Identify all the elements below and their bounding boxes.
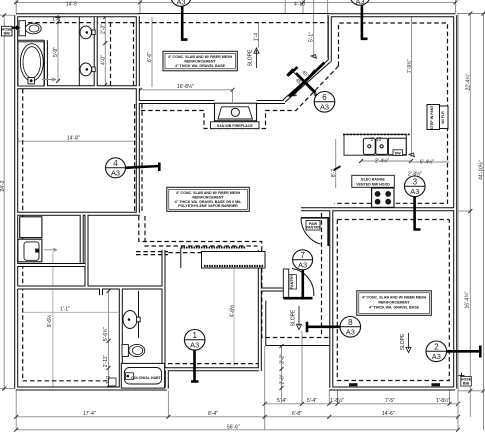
pantry door upper leaf box — [301, 217, 329, 246]
dashed roof line right of porch — [321, 213, 323, 338]
garage slope arrow — [400, 333, 411, 353]
hall lower door leaf box — [283, 269, 314, 299]
closet hall wall dashed — [136, 251, 168, 253]
vanity counter line — [78, 17, 80, 86]
diagonal wall — [284, 61, 330, 102]
note box garage slab — [357, 291, 432, 316]
garage inner dashed rectangle — [337, 220, 449, 381]
svg-text:4" THICK WA. GRAVEL BASE: 4" THICK WA. GRAVEL BASE — [175, 64, 226, 68]
svg-text:SLOPE: SLOPE — [248, 49, 254, 66]
leader callout 6 (diagonal) — [289, 63, 324, 97]
svg-text:BIB: BIB — [4, 31, 11, 35]
svg-text:2'-4½": 2'-4½" — [375, 158, 389, 165]
utility cabinet box — [20, 217, 42, 238]
bedroom1 centerline + dim — [229, 255, 236, 366]
svg-text:2'-11": 2'-11" — [103, 355, 109, 368]
svg-text:7: 7 — [300, 251, 305, 260]
utility wall east — [80, 214, 84, 263]
left wall inner dashed — [22, 89, 24, 381]
svg-text:PANTRY: PANTRY — [306, 226, 321, 230]
fireplace wall west segment — [138, 100, 215, 104]
svg-text:6'-8": 6'-8" — [292, 411, 302, 417]
master closet dashed rod lines — [133, 23, 135, 86]
svg-text:PANTRY: PANTRY — [290, 274, 294, 289]
utility door arrow gray — [44, 248, 57, 251]
svg-text:ELEC RANGE: ELEC RANGE — [361, 177, 385, 181]
callout 2/A3 — [426, 341, 447, 362]
svg-text:6: 6 — [322, 93, 327, 102]
kitchen dim 6'-4.5 — [411, 159, 449, 166]
bottom dimension row B — [14, 391, 460, 431]
dashed flanking bedroom wall right — [141, 104, 143, 213]
callout 3/A3 — [405, 176, 426, 197]
bottom dimension row C overall — [14, 425, 460, 432]
svg-text:14'-8": 14'-8" — [67, 136, 80, 142]
pantry / fridge boxes — [427, 104, 448, 129]
svg-text:4'-0": 4'-0" — [101, 55, 107, 65]
svg-text:5'-1": 5'-1" — [309, 32, 315, 42]
callout 7 leader — [284, 270, 313, 298]
svg-text:2'-0": 2'-0" — [280, 374, 286, 384]
svg-text:2'-3": 2'-3" — [101, 24, 107, 34]
svg-text:A3: A3 — [298, 261, 307, 270]
bath2 top wall — [16, 286, 164, 290]
leader callout 4 — [126, 163, 160, 172]
svg-text:1'-4: 1'-4 — [254, 33, 260, 41]
svg-text:SLOPE: SLOPE — [400, 333, 406, 350]
callout 1/A3 — [184, 330, 205, 351]
svg-text:SAN WB FIREPLACE: SAN WB FIREPLACE — [217, 124, 254, 128]
callout 4/A3 — [106, 158, 126, 178]
svg-text:A3: A3 — [346, 328, 355, 337]
fireplace 45 degree X marks — [287, 69, 317, 96]
leader callout 3 — [414, 197, 421, 230]
mid wall below bedroom — [16, 212, 140, 216]
small box left of bath2 — [109, 378, 117, 386]
patio dim 16'-8.5 — [138, 83, 235, 102]
svg-text:1: 1 — [192, 331, 197, 340]
great room dashed along diagonal wall — [141, 66, 339, 129]
svg-text:1'-1": 1'-1" — [60, 307, 70, 313]
patio dim 1'-4 vertical — [254, 23, 260, 48]
range — [372, 188, 394, 207]
vanity sink 1 — [80, 26, 95, 39]
svg-text:7'-5": 7'-5" — [385, 398, 395, 404]
exterior wall right — [453, 15, 457, 388]
callout 7/A3 — [293, 250, 313, 270]
svg-text:DW: DW — [395, 152, 402, 156]
leader callout 2 — [447, 346, 481, 358]
svg-text:4" THICK WA. GRAVEL BASE ON 6: 4" THICK WA. GRAVEL BASE ON 6 MIL — [175, 200, 242, 204]
fireplace wall east segment — [257, 100, 286, 104]
leader callout 1 — [191, 351, 199, 382]
exterior wall left — [14, 15, 18, 388]
patio top slab edge — [138, 13, 330, 15]
garage left wall — [329, 209, 333, 388]
bath2 dims column — [103, 289, 112, 388]
kitchen bottom wall — [301, 207, 455, 211]
tub niche wall — [44, 40, 48, 87]
callout 8/A3 — [340, 317, 361, 338]
svg-text:5'-4": 5'-4" — [307, 398, 317, 404]
bath2 left wall — [119, 288, 123, 389]
svg-text:4'-10: 4'-10 — [294, 1, 305, 7]
bath door swing arrow gray — [42, 78, 56, 81]
vanity dims 2'-3 / 4'-0 — [101, 15, 108, 87]
vanity wall — [94, 17, 98, 87]
svg-text:5'-4": 5'-4" — [277, 398, 287, 404]
svg-text:W/ FLR: W/ FLR — [441, 111, 445, 124]
bath2 right / bedroom1 west wall — [162, 250, 166, 389]
svg-text:5'-9": 5'-9" — [53, 47, 59, 57]
svg-text:4'-6½: 4'-6½ — [229, 304, 236, 317]
leader callout 8 — [307, 322, 340, 333]
porch slab solid edge — [266, 301, 330, 346]
fireplace — [211, 103, 260, 128]
bedroom closet nested rects — [168, 248, 265, 269]
svg-text:COLONIAL HABT: COLONIAL HABT — [131, 376, 161, 380]
svg-text:8'-4": 8'-4" — [208, 411, 218, 417]
bedroom dim 14'-8 — [15, 136, 141, 144]
svg-text:REINFORCEMENT: REINFORCEMENT — [378, 300, 410, 304]
top dimension line — [14, 0, 458, 58]
bedroom1 dashed line above bottom wall — [168, 363, 258, 365]
svg-text:A3: A3 — [355, 0, 364, 6]
stoop slope arrow — [291, 306, 302, 330]
svg-text:17'-4": 17'-4" — [83, 411, 96, 417]
svg-text:16'-8½": 16'-8½" — [177, 83, 194, 90]
svg-text:A3: A3 — [190, 341, 199, 350]
utility wall south — [16, 263, 85, 267]
left dimension line — [0, 13, 15, 390]
notch wall bed1 east jog — [165, 369, 169, 388]
exterior wall bottom-left — [16, 387, 167, 391]
dashed flanking bedroom wall left — [134, 104, 136, 213]
svg-text:1'-8½": 1'-8½" — [330, 397, 344, 404]
patio slope arrow — [248, 48, 260, 68]
svg-text:14'-5: 14'-5 — [66, 1, 77, 7]
svg-text:POLYETHYLENE VAPOR BARRIER: POLYETHYLENE VAPOR BARRIER — [178, 204, 238, 208]
note box patio slab — [163, 51, 237, 71]
bedroom1 bottom wall — [165, 367, 260, 371]
hall roof dashed L inner — [145, 216, 258, 246]
svg-text:4" THICK WA. GRAVEL BASE: 4" THICK WA. GRAVEL BASE — [369, 305, 420, 309]
bath2 toilet — [122, 344, 145, 356]
bottom-left room centerlines + dims — [23, 252, 118, 388]
svg-text:44'-10½": 44'-10½" — [478, 160, 485, 180]
svg-text:5'-6¾": 5'-6¾" — [103, 327, 109, 341]
leader callout 9 — [361, 5, 368, 39]
exterior wall top — [16, 13, 140, 17]
svg-text:8: 8 — [348, 318, 353, 327]
bath2 sink — [123, 291, 140, 338]
svg-text:A3: A3 — [176, 0, 185, 7]
hall roof dashed L outer — [139, 216, 329, 338]
svg-text:REINFORCEMENT: REINFORCEMENT — [184, 60, 216, 64]
bottom dimension row A — [263, 331, 460, 430]
stoop wall stub — [260, 288, 283, 292]
svg-text:BIB: BIB — [463, 382, 470, 386]
svg-text:24'-2: 24'-2 — [0, 180, 6, 191]
kitchen dim 2'-4.5 — [359, 158, 413, 165]
bottom-left room dashed slab edge — [23, 380, 115, 382]
svg-text:6'-6": 6'-6" — [147, 52, 153, 62]
callout 5/A3 (cut at top) — [171, 0, 192, 7]
kitchen dim 8'-7 — [331, 139, 337, 188]
callout 9/A3 (cut at top) — [350, 0, 370, 6]
svg-text:14'-6": 14'-6" — [382, 411, 395, 417]
tub niche top — [18, 39, 44, 41]
svg-text:STEP IN PANT: STEP IN PANT — [430, 104, 434, 129]
svg-text:A3: A3 — [432, 352, 441, 361]
elec range note box — [352, 175, 395, 187]
great room inner dashed rectangle — [334, 23, 448, 203]
bedroom1 right wall — [258, 250, 262, 371]
svg-text:56'-6": 56'-6" — [227, 425, 240, 431]
svg-text:A3: A3 — [320, 103, 329, 112]
bath1 bottom wall — [16, 85, 140, 89]
toilet dim tick top — [56, 15, 61, 20]
svg-text:7'-9¾": 7'-9¾" — [407, 59, 413, 73]
svg-text:4: 4 — [113, 159, 118, 168]
svg-text:2: 2 — [434, 342, 439, 351]
closet / bedroom right wall — [136, 15, 140, 214]
exterior wall garage bottom — [329, 387, 455, 391]
wall inner white cores — [16, 15, 455, 388]
svg-text:REINFORCEMENT: REINFORCEMENT — [192, 195, 224, 199]
svg-text:22'-4¾": 22'-4¾" — [466, 73, 472, 90]
patio dim 5'-1 vertical — [309, 23, 317, 58]
roof overhang dashed line across top — [28, 22, 328, 24]
svg-text:1'-8½": 1'-8½" — [436, 397, 450, 404]
closet dim 16'-6 — [147, 17, 153, 87]
svg-text:9'-6½: 9'-6½ — [46, 314, 53, 327]
kitchen dim 2'-8.5 near callout 3 — [408, 171, 422, 178]
stub wall below bath2 top — [99, 288, 103, 296]
right dimension columns — [457, 12, 485, 431]
garage door jamb marks — [349, 383, 358, 386]
great room dim 7'-9.75 — [407, 17, 414, 157]
svg-text:3'-2": 3'-2" — [280, 354, 286, 364]
svg-text:3: 3 — [413, 177, 418, 186]
leader callout 5 — [181, 6, 188, 40]
bath2 tub — [121, 363, 164, 388]
svg-text:A3: A3 — [111, 169, 120, 178]
svg-text:16'-4¾": 16'-4¾" — [465, 291, 471, 308]
tub master bath — [18, 42, 44, 86]
svg-text:SLOPE: SLOPE — [291, 309, 297, 326]
hall wall east of utility — [85, 214, 89, 288]
svg-text:6'-4½": 6'-4½" — [420, 159, 434, 166]
porch dims 3'-2 / 2'-0 — [280, 344, 286, 403]
svg-text:4" CONC. SLAB AND W/ FIBER MES: 4" CONC. SLAB AND W/ FIBER MESH — [176, 191, 241, 195]
svg-text:A3: A3 — [410, 187, 419, 196]
svg-text:1'-10: 1'-10 — [371, 137, 382, 143]
note box main slab — [167, 187, 250, 211]
svg-text:4" CONC. SLAB AND W/ FIBER MES: 4" CONC. SLAB AND W/ FIBER MESH — [362, 295, 427, 299]
kitchen counter — [334, 134, 411, 170]
vanity sink 2 — [80, 63, 95, 76]
hose bib bottom right — [459, 373, 472, 386]
callout 6/A3 — [314, 92, 335, 113]
utility sink box — [18, 239, 42, 262]
great room west wall upper — [328, 15, 332, 61]
svg-text:VENTED MW HOOD: VENTED MW HOOD — [356, 182, 390, 186]
bath1 tub dim 5'-9 — [52, 17, 60, 84]
svg-text:4" CONC. SLAB AND W/ FIBER MES: 4" CONC. SLAB AND W/ FIBER MESH — [168, 55, 233, 59]
hose bib top-left — [2, 25, 21, 36]
toilet master bath — [19, 21, 41, 36]
